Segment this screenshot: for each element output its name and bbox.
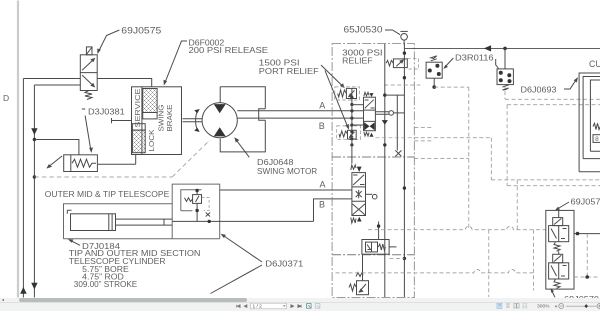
dashed vertical x468 [468,87,470,230]
arrow on supply line [484,45,491,51]
manifold section divider 1 [332,156,414,158]
wire stub B port [352,124,364,126]
wire from rail2 to valve 69J0575 lower port [34,84,80,86]
pilot stub left of block [112,118,132,123]
dashed main run y229 [368,226,546,229]
enclosure notch bracket [259,109,266,121]
svg-text:A: A [319,101,325,111]
dashed pilot under relief [384,84,420,86]
wire A telescope [220,189,352,191]
node stack right [576,232,580,236]
stack cartridge 2 body [549,263,569,279]
shuttle valve cells [366,242,378,252]
dashed vertical x533 [533,230,535,291]
leader D7J0184 arrow [70,240,81,245]
svg-text:SERVICE: SERVICE [133,89,142,128]
motor shaft [183,119,204,122]
svg-text:D: D [3,93,9,103]
history forward icon [315,304,320,309]
hatch box lock bottom [132,130,145,153]
svg-text:8: 8 [595,136,599,143]
view single page icon active [497,303,502,308]
zoom slider thumb [584,304,588,308]
nav first page button [236,305,240,308]
node shuttle feed [377,224,380,227]
relief valve manual lever arrow [47,156,62,168]
motor triangle top [214,104,226,113]
dashed route y137 right [414,138,600,180]
node cb top [195,189,198,192]
leader port relief 2 [325,71,348,128]
stack cartridge 2 stem [558,251,560,254]
dashed vertical x488 [488,230,490,297]
dashed stub y127 [414,127,433,129]
svg-text:OUTER MID & TIP TELESCOPE: OUTER MID & TIP TELESCOPE [45,190,170,199]
bottom relief W [356,273,363,277]
telescope group outer box [64,204,220,239]
svg-text:LOCK: LOCK [147,130,156,152]
wire supply to test point right [504,48,506,69]
svg-text:D3R0116: D3R0116 [455,52,494,62]
wire stack right port [574,233,600,235]
leader port relief 1 [321,65,343,87]
relief valve D3J0381 body [64,155,98,172]
dashed return line [34,176,172,178]
cylinder port stub [67,210,71,214]
swing brake block body [132,87,182,155]
dashed vertical x516 [516,180,518,230]
swing motor enclosure box [220,87,265,152]
solenoid valve 69J0575 body [80,55,97,91]
swing spool bottom spring [364,132,369,136]
svg-text:309.00” STROKE: 309.00” STROKE [74,280,138,289]
swing spool top spring [364,92,369,96]
leader D6J0371 up [223,235,263,262]
svg-text:PORT RELIEF: PORT RELIEF [259,66,319,76]
cylinder rod [116,219,165,225]
arrow down on rail2 upper [31,128,37,135]
swing spool top solenoid arrow [370,93,374,97]
telescope spool body U2 [352,173,366,216]
view continuous icon [506,304,509,308]
wire valve output to swing brake block [97,79,152,87]
node above relief [403,51,406,54]
node on through line [208,220,211,223]
dashed from test point right down [505,85,600,100]
stack cartridge 2 solenoid [553,254,563,262]
valve stack outer box 69J0571 [546,210,574,289]
port relief 1 spring [338,90,347,97]
spool output shaft [375,112,389,115]
node stack lower right [585,275,589,279]
svg-text:BRAKE: BRAKE [165,105,174,132]
wire rail2 to relief valve [34,140,79,155]
line rod to counterbalance [172,220,313,222]
wire from rail1 to valve 69J0575 port [23,78,80,80]
node below relief [403,76,406,79]
nav next page button [291,305,294,308]
hatch box service small [143,113,157,119]
supply rail [403,44,405,297]
stack cartridge 1 solenoid [553,218,563,226]
leader D6J0693 [564,79,577,89]
cylinder piston [109,214,112,231]
swing spool s1 arrows [365,100,375,109]
valve 69J0575 spring [85,91,92,100]
svg-text:D6J0693: D6J0693 [521,84,557,94]
status bar [0,302,600,311]
telescope spool right stub [366,193,373,195]
horizontal scrollbar [0,298,600,302]
port relief 2 dashed box [337,126,361,140]
port relief 1 body [346,88,356,98]
main supply line top [404,47,600,49]
closed port X [395,150,401,156]
node rail swing [350,96,353,99]
node rail at 187 [403,186,406,189]
test point left squiggle [431,56,437,61]
dashed stub y140 [414,140,433,142]
cushion spring W [593,123,600,129]
bottom relief spring [349,284,357,291]
cushion block inner box [590,80,600,151]
pilot dashed box right of relief [407,58,418,69]
leader D3J0381 [82,109,91,150]
node pilot top [383,93,386,96]
node test point left [432,85,436,89]
valve top cell arrow [82,59,94,70]
wire B telescope [314,199,352,222]
view continuous facing icon [522,304,527,308]
nav prev page button [244,305,247,308]
svg-text:300%: 300% [537,304,550,310]
leader D6J0648 [236,139,250,157]
wire shuttle to rail [389,246,396,248]
wire rail1 vertical [22,79,24,298]
svg-text:200 PSI RELEASE: 200 PSI RELEASE [189,46,269,55]
dashed pilot y137 [375,137,414,139]
counterbalance spring [185,198,193,202]
bottom relief valve body [357,281,369,295]
swing spool body U1 [364,97,376,131]
swing spool s3 bowtie [364,122,375,130]
wire circle to rail [394,112,405,114]
bottom relief stem [362,255,364,281]
stack cartridge 1 spring [554,242,560,252]
counterbalance box [172,184,220,239]
page number input box [251,303,287,309]
svg-text:B: B [319,199,325,209]
svg-text:69J057: 69J057 [571,197,600,207]
rail dots vertical [351,88,353,164]
stack cartridge 1 stem [558,210,560,217]
leader D3R0116 right [496,59,499,69]
hatch box service top [143,89,157,113]
svg-text:B: B [319,121,325,131]
dashed branch y158 [414,158,469,160]
leader 65J0530 [385,30,400,35]
valve bottom cell arrow [82,75,94,86]
telescope spool bottom solenoid arrow [357,217,362,222]
motor triangle bottom [214,127,226,136]
leader 69J0570 bottom [551,289,555,297]
telescope pilot circle [372,194,377,199]
leader 69J057 top [557,202,570,210]
counterbalance pilot dashed box [202,198,210,211]
counterbalance inner box [181,190,202,211]
counterbalance valve body [193,195,202,204]
wire rail2 vertical [33,85,35,298]
pilot vertical x396 [396,95,398,150]
telescope cylinder barrel D7J0184 [71,214,116,231]
node rail2 junction [33,138,36,141]
zoom slider track [566,305,597,307]
svg-text:69J0575: 69J0575 [121,25,161,35]
zoom marker dot [555,306,557,308]
history back icon [307,304,312,309]
arrow down on rail2 lower [31,283,37,290]
relief valve spring [72,159,96,167]
test point right squiggle [503,85,509,90]
orifice x symbol [206,213,210,217]
port relief 1 dashed box [335,87,360,100]
dashed diagonal to motor [172,140,210,177]
telescope spool s3 cross [353,204,365,215]
cushion block outer box [579,73,600,172]
node cb bottom [195,209,198,212]
svg-text:D6J0371: D6J0371 [265,258,303,268]
leader D6J0371 down [211,265,263,294]
wire lock section foot [135,155,137,165]
svg-text:CU: CU [589,59,600,69]
manifold border chain [332,44,414,298]
test point valve right D3R0116 [497,69,513,85]
svg-text:SWING MOTOR: SWING MOTOR [257,166,317,176]
dashed pilot y104 [507,105,600,186]
wire spool to shuttle [378,222,380,240]
arrow up on rail1 [20,287,27,294]
relief 3000 spring [386,60,393,66]
shuttle spring [378,244,385,250]
telescope spool top spring [351,165,356,170]
wire B swing [237,117,363,119]
rod extension lines [164,219,172,225]
shuttle box [362,240,389,255]
svg-text:RELIEF: RELIEF [342,55,372,65]
test point valve left [426,62,442,78]
leader 69J0575 [98,30,119,52]
swing spool bottom solenoid arrow [370,133,374,137]
view facing icon [514,304,516,308]
divider service column [141,87,143,155]
pilot rail x384 [384,44,386,297]
output pilot circle [389,111,394,116]
svg-text:D3J0381: D3J0381 [88,107,125,116]
telescope spool s2 star [356,190,362,198]
page left edge [17,1,19,298]
cushion orifice box [593,135,600,143]
check arrow on pilot rail [382,120,388,125]
dashed pilot from left test point [434,86,469,88]
solenoid valve 69J0575 pilot tab [86,47,92,55]
port relief 2 spring [339,131,348,137]
telescope spool bottom spring [351,218,356,224]
svg-text:A: A [320,179,326,189]
page dropdown caret [283,305,286,307]
stack cartridge 2 spring [554,279,560,288]
svg-text:65J0530: 65J0530 [344,25,383,35]
telescope spool s1 arrows [353,175,364,185]
wire test point left down [433,78,435,87]
relief cartridge 3000psi body [393,59,407,68]
leader D3R0116 left [445,58,454,68]
manifold section divider 2 [332,254,414,256]
zoom out button [559,304,564,309]
swing motor circle D6J0648 [202,103,237,138]
hatch box lock small [132,124,145,130]
node rail at 258 [403,257,406,260]
dashed bottom run y272 [336,269,534,272]
port relief 2 body [348,130,357,139]
vent stem [403,40,405,44]
zoom in button partial [597,304,600,309]
node supply tee [503,47,507,51]
leader D6F0002 [165,41,187,83]
vent 65J0530 circle [401,34,408,41]
dashed shuttle pilot [390,257,405,259]
dashed stack right box [574,234,600,277]
node pilot mid [383,143,386,146]
counterbalance valve stem [196,190,198,222]
stack cartridge 1 body [549,226,569,242]
wire A swing [237,110,363,112]
cushion block middle box [583,77,600,159]
nav last page button [298,305,301,308]
svg-text:1 / 2: 1 / 2 [253,304,263,310]
telescope spool top solenoid arrow [357,167,362,172]
node rail2 at dashed line [33,175,36,178]
motor rotation arrows [196,111,199,131]
wire stub A port [352,104,364,106]
wire relief output to lock section [97,163,135,165]
wire pilot top [385,94,405,96]
